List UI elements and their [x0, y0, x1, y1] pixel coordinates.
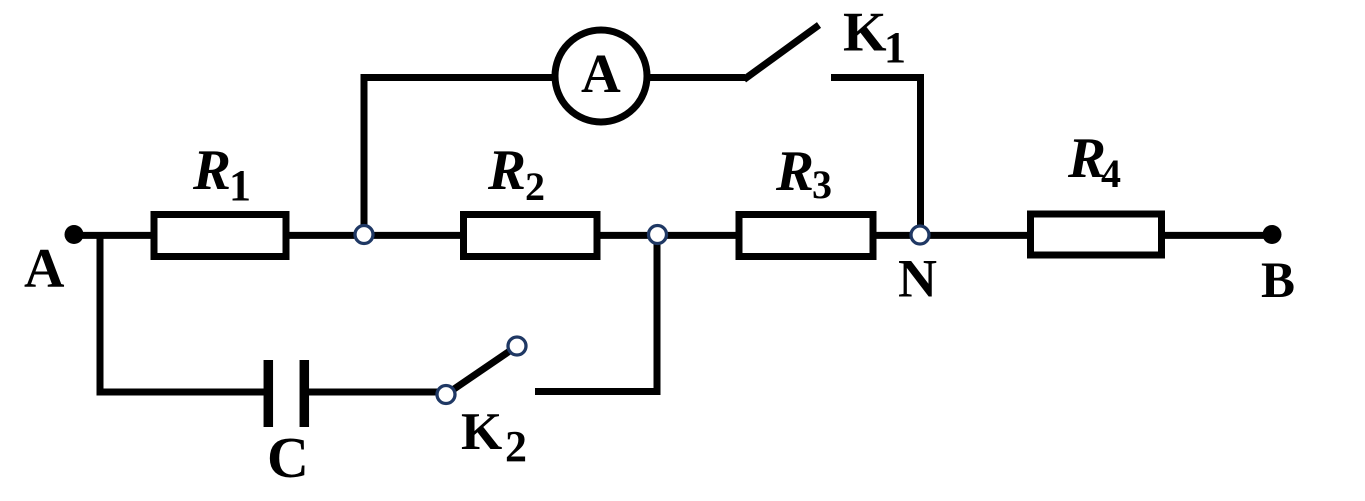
svg-text:3: 3 [812, 162, 832, 207]
svg-text:2: 2 [505, 422, 527, 471]
svg-text:R: R [192, 139, 231, 202]
svg-text:2: 2 [525, 164, 545, 209]
svg-text:N: N [898, 249, 937, 309]
svg-text:B: B [1261, 253, 1295, 309]
svg-text:K: K [461, 403, 502, 461]
svg-text:1: 1 [884, 23, 906, 72]
svg-text:1: 1 [229, 161, 251, 210]
svg-text:R: R [775, 140, 814, 203]
svg-text:C: C [267, 425, 309, 490]
svg-text:R: R [487, 139, 526, 202]
svg-text:4: 4 [1101, 151, 1121, 196]
svg-text:K: K [843, 2, 887, 64]
svg-text:A: A [581, 43, 621, 104]
svg-text:A: A [24, 238, 65, 300]
